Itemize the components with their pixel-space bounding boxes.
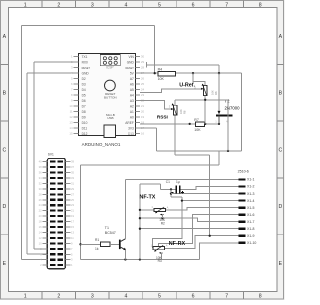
pin TX1 stub left (pin 1) (74, 56, 79, 58)
svg-text:X1-8: X1-8 (247, 227, 254, 231)
wire RX0 left vertical (33, 62, 35, 249)
svg-text:23: 23 (71, 203, 74, 207)
node X1-4 tap on drop (181, 199, 183, 201)
pin A2 stub right (pin 21) (135, 105, 140, 107)
SV1 stub right pin 23 (65, 204, 70, 206)
frame column tick bottom 4 (142, 292, 144, 299)
svg-text:12: 12 (39, 236, 42, 240)
SV1 stub left pin 12 (42, 237, 47, 239)
svg-text:10: 10 (69, 104, 73, 108)
wire X1-3 (171, 193, 238, 195)
wire R2 wiper line to X1-7 (140, 218, 239, 221)
svg-text:D13: D13 (128, 132, 134, 136)
node R2 left bus tap (139, 209, 141, 211)
pin RESET stub left (pin 3) (74, 67, 79, 69)
wire RSSI route horizontal (175, 154, 210, 156)
svg-text:D5: D5 (82, 93, 86, 97)
transistor T2 drain lead (227, 115, 229, 150)
wire X1-4 line (182, 200, 239, 202)
svg-text:NF-TX: NF-TX (140, 195, 156, 201)
pin GND stub left (pin 4) (74, 72, 79, 74)
SV1 pad left row 18 (pin 6) (50, 253, 55, 255)
svg-text:6: 6 (192, 294, 195, 300)
svg-text:R8: R8 (183, 110, 187, 114)
wire RESET net drop to gate node (218, 65, 220, 73)
SV1 stub left pin 2 (42, 264, 47, 266)
connector X1 pad 7 (238, 221, 245, 223)
svg-text:ICSP: ICSP (106, 66, 114, 70)
svg-text:10: 10 (39, 241, 42, 245)
pin A0 stub right (pin 19) (135, 116, 140, 118)
svg-text:R3: R3 (158, 259, 162, 263)
pin A5 stub right (pin 24) (135, 89, 140, 91)
svg-text:5: 5 (158, 294, 161, 300)
pin D10 stub left (pin 13) (74, 122, 79, 124)
svg-text:C1: C1 (166, 180, 170, 184)
SV1 pad left row 2 (pin 38) (50, 166, 55, 168)
SV1 stub right pin 27 (65, 193, 70, 195)
SV1 stub left pin 24 (42, 204, 47, 206)
svg-text:22: 22 (39, 209, 42, 213)
SV1 stub right pin 33 (65, 177, 70, 179)
svg-text:NF-RX: NF-RX (169, 241, 186, 247)
wire RSSI top / U-Ref bottom / T2 drain net (175, 99, 228, 101)
svg-text:X1-4: X1-4 (247, 199, 254, 203)
node R2 bus tap wiper (139, 217, 141, 219)
frame column tick bottom 5 (175, 292, 177, 299)
svg-text:R1: R1 (95, 238, 99, 242)
wire RSSI trimmer top riser (174, 100, 176, 105)
svg-text:39: 39 (71, 160, 74, 164)
svg-text:2: 2 (57, 294, 60, 300)
svg-text:2N7000: 2N7000 (225, 106, 241, 111)
svg-text:4: 4 (124, 294, 127, 300)
pin RX0 stub left (pin 2) (74, 61, 79, 63)
transistor T2 channel bar (216, 114, 233, 116)
SV1 pad left row 15 (pin 12) (50, 237, 55, 239)
wire X1-6 elbow down to NF-RX top (159, 215, 239, 247)
svg-text:D11: D11 (82, 126, 88, 130)
wire R7 to T2 source (205, 123, 219, 125)
pin D13 stub right (pin 16) (135, 133, 140, 135)
SV1 pad right row 10 (pin 21) (58, 210, 63, 212)
arduino reset button circle (105, 80, 116, 91)
pin D3 stub left (pin 6) (74, 83, 79, 85)
SV1 stub right pin 11 (65, 237, 70, 239)
connector X1 pad 6 (238, 214, 245, 216)
SV1 stub left pin 36 (42, 172, 47, 174)
wire big loop riser (218, 151, 220, 165)
node R7 left junction (189, 123, 191, 125)
svg-text:A: A (166, 244, 168, 248)
svg-text:17: 17 (141, 126, 145, 130)
transistor T1 emitter diagonal (121, 247, 126, 250)
svg-text:31: 31 (71, 181, 74, 185)
SV1 stub left pin 26 (42, 199, 47, 201)
SV1 pad left row 8 (pin 26) (50, 199, 55, 201)
wire 5V pin to R4 (140, 72, 158, 74)
SV1 pad left row 14 (pin 14) (50, 231, 55, 233)
wire C1 right plate to X1-2 (180, 187, 238, 190)
svg-text:7: 7 (225, 2, 228, 8)
svg-text:11: 11 (70, 110, 73, 114)
svg-text:23: 23 (141, 93, 145, 97)
trimmer R3 adjust arrow (156, 245, 164, 250)
trimmer U-Ref body (204, 86, 207, 96)
svg-text:BUTTON: BUTTON (104, 95, 117, 99)
node R1 tap on big loop (79, 243, 81, 245)
node 5V/R4 junction (154, 72, 156, 74)
wire big loop horizontal (81, 164, 220, 166)
svg-text:15: 15 (69, 132, 73, 136)
resistor R1 body (101, 242, 111, 246)
wire X1-8 bus branch (140, 228, 239, 230)
svg-text:BC547: BC547 (105, 231, 116, 235)
node center bus on bottom run (139, 258, 141, 260)
ICSP pad 3 (114, 57, 117, 60)
SV1 pad left row 11 (pin 20) (50, 215, 55, 217)
wire C1 feed jog vertical (160, 184, 162, 190)
node X1-3 tap (170, 192, 172, 194)
frame row tick right 4 (277, 234, 284, 236)
SV1 stub left pin 40 (42, 161, 47, 163)
SV1 pad left row 6 (pin 30) (50, 188, 55, 190)
SV1 pad left row 5 (pin 32) (50, 182, 55, 184)
svg-text:A5: A5 (130, 88, 134, 92)
SV1 stub right pin 3 (65, 259, 70, 261)
svg-text:A0: A0 (130, 115, 134, 119)
node C1 branch tap (170, 188, 172, 190)
wire bottom run to X1-10 (200, 243, 239, 260)
frame column tick top 2 (75, 1, 77, 8)
wire bottom ground run (81, 259, 200, 261)
svg-text:C: C (3, 147, 7, 153)
wire R2 left stub from bus (140, 209, 154, 211)
svg-text:X1-1: X1-1 (247, 178, 254, 182)
svg-text:33: 33 (71, 176, 74, 180)
SV1 stub left pin 10 (42, 242, 47, 244)
wire to C1 left plate (161, 188, 176, 190)
wire NF-RX output riser to X1-9 (164, 236, 238, 249)
svg-text:21: 21 (141, 104, 145, 108)
frame column tick bottom 6 (209, 292, 211, 299)
svg-text:5: 5 (158, 2, 161, 8)
node T2 source junction (218, 123, 220, 125)
wire A5 to U-Ref wiper stepped (140, 89, 201, 93)
SV1 pad right row 2 (pin 37) (58, 166, 63, 168)
svg-text:26: 26 (39, 198, 42, 202)
SV1 stub right pin 39 (65, 161, 70, 163)
pin 5V stub right (pin 27) (135, 72, 140, 74)
svg-text:ARDUINO_NANO1: ARDUINO_NANO1 (82, 142, 121, 147)
SV1 stub left pin 22 (42, 210, 47, 212)
wire T2 drain riser (227, 100, 229, 116)
svg-text:X1-7: X1-7 (247, 220, 254, 224)
svg-text:20: 20 (39, 214, 42, 218)
wire RSSI route vertical upper (174, 115, 176, 155)
wire X1-5 from R2 output (165, 208, 238, 210)
svg-text:T1: T1 (105, 226, 109, 230)
svg-text:25: 25 (141, 82, 145, 86)
transistor T1 collector diagonal (121, 239, 126, 242)
svg-text:D9: D9 (82, 115, 86, 119)
wire GND from nano to left vertical (27, 72, 75, 74)
svg-text:D8: D8 (82, 110, 86, 114)
SV1 stub left pin 18 (42, 221, 47, 223)
SV1 pad right row 17 (pin 7) (58, 248, 63, 250)
arduino nano ARDUINO_NANO1 body (79, 54, 136, 136)
trimmer R2 adjust arrow (157, 207, 165, 212)
frame row tick left 4 (1, 234, 9, 236)
svg-text:17: 17 (71, 220, 74, 224)
wire X1-4 elbow down to NF-RX input (153, 197, 182, 248)
frame column tick top 6 (209, 1, 211, 8)
pin D2 stub left (pin 5) (74, 78, 79, 80)
capacitor C1 minus sign (171, 191, 173, 193)
svg-text:21: 21 (71, 209, 74, 213)
wire T2 loop right vertical (241, 73, 243, 151)
frame row tick left 1 (1, 63, 9, 65)
svg-text:10K: 10K (179, 109, 183, 114)
wire A3 to RSSI wiper stepped (140, 101, 171, 109)
SV1 stub left pin 30 (42, 188, 47, 190)
SV1 stub right pin 17 (65, 221, 70, 223)
connector X1 pad 2 (238, 185, 245, 187)
SV1 stub right pin 7 (65, 248, 70, 250)
trimmer R2 body (154, 208, 165, 211)
node T2 gate branch (218, 72, 220, 74)
wire X1-1 from T1 collector (125, 179, 238, 181)
svg-text:18: 18 (39, 220, 42, 224)
connector X1 pad 9 (238, 235, 245, 237)
SV1 pad left row 20 (pin 2) (50, 264, 55, 266)
svg-text:A6: A6 (130, 82, 134, 86)
svg-text:R7: R7 (194, 118, 199, 122)
svg-text:TX1: TX1 (82, 55, 88, 59)
pin header SV1 body (47, 158, 65, 268)
svg-text:RESET: RESET (82, 67, 91, 70)
SV1 stub left pin 14 (42, 231, 47, 233)
SV1 stub right pin 37 (65, 166, 70, 168)
svg-text:X1-2: X1-2 (247, 185, 254, 189)
svg-text:14: 14 (69, 126, 73, 130)
SV1 stub right pin 25 (65, 199, 70, 201)
svg-text:D12: D12 (82, 132, 88, 136)
svg-text:25: 25 (71, 198, 74, 202)
transistor T2 gate arrow (218, 111, 221, 114)
SV1 pad right row 16 (pin 9) (58, 242, 63, 244)
svg-text:A1: A1 (130, 110, 134, 114)
svg-text:E: E (279, 261, 283, 267)
pin A4 stub right (pin 23) (135, 94, 140, 96)
svg-text:6: 6 (192, 2, 195, 8)
svg-text:D: D (3, 204, 7, 210)
pin A7 stub right (pin 26) (135, 78, 140, 80)
wire C1 branch vertical (170, 189, 172, 197)
wire big loop left vertical (80, 165, 82, 260)
svg-text:24: 24 (141, 88, 145, 92)
svg-text:D10: D10 (82, 121, 88, 125)
node R7 right / U-Ref bottom junction (204, 123, 206, 125)
svg-text:B: B (3, 91, 7, 97)
svg-text:13: 13 (71, 230, 74, 234)
wire GND into SV1 pin row 18 (27, 253, 47, 255)
SV1 pad right row 11 (pin 19) (58, 215, 63, 217)
SV1 stub right pin 35 (65, 172, 70, 174)
svg-text:29: 29 (141, 60, 145, 64)
node U-Ref top branch (192, 72, 194, 74)
wire U-Ref top hook (193, 73, 205, 85)
SV1 stub right pin 5 (65, 253, 70, 255)
SV1 pad left row 16 (pin 10) (50, 242, 55, 244)
svg-text:32: 32 (39, 181, 42, 185)
SV1 pad left row 13 (pin 16) (50, 226, 55, 228)
pin D8 stub left (pin 11) (74, 111, 79, 113)
svg-text:D6: D6 (82, 99, 86, 103)
SV1 pad left row 17 (pin 8) (50, 248, 55, 250)
svg-text:1: 1 (24, 294, 27, 300)
pin D7 stub left (pin 10) (74, 105, 79, 107)
frame column tick bottom 3 (108, 292, 110, 299)
svg-text:12: 12 (69, 115, 73, 119)
SV1 stub right pin 13 (65, 231, 70, 233)
svg-text:30: 30 (39, 187, 42, 191)
SV1 pad left row 9 (pin 24) (50, 204, 55, 206)
SV1 stub right pin 15 (65, 226, 70, 228)
SV1 pad right row 5 (pin 31) (58, 182, 63, 184)
node T1 emitter on bottom run (124, 258, 126, 260)
pin D9 stub left (pin 12) (74, 116, 79, 118)
pin 3V3 stub right (pin 17) (135, 127, 140, 129)
SV1 stub right pin 29 (65, 188, 70, 190)
arduino ICSP header box (100, 55, 120, 66)
SV1 stub left pin 38 (42, 166, 47, 168)
svg-text:37: 37 (71, 165, 74, 169)
SV1 pad right row 6 (pin 29) (58, 188, 63, 190)
frame column tick bottom 1 (41, 292, 43, 299)
svg-text:R6: R6 (214, 91, 218, 95)
frame column tick bottom 2 (75, 292, 77, 299)
svg-text:T2: T2 (225, 99, 231, 104)
SV1 stub right pin 21 (65, 210, 70, 212)
wire NF-RX input stub (152, 247, 155, 249)
SV1 pad right row 12 (pin 17) (58, 221, 63, 223)
transistor T1 emitter arrow (123, 248, 126, 251)
SV1 stub right pin 1 (65, 264, 70, 266)
svg-text:13: 13 (69, 121, 73, 125)
SV1 stub left pin 34 (42, 177, 47, 179)
wire RX0 from nano to left vertical (34, 61, 74, 63)
SV1 stub left pin 8 (42, 248, 47, 250)
trimmer RSSI body (174, 105, 177, 115)
wire T2 gate vertical (218, 73, 220, 111)
trimmer R2 wiper arrow (161, 214, 164, 216)
pin GND stub right (pin 29) (135, 61, 140, 63)
SV1 stub left pin 20 (42, 215, 47, 217)
wire 5V top loop horizontal (21, 25, 154, 27)
connector X1 pad 1 (238, 178, 245, 180)
wire AREF to R7 (140, 123, 195, 125)
svg-text:C: C (279, 147, 283, 153)
capacitor C1 left plate (176, 186, 178, 194)
SV1 pad left row 19 (pin 4) (50, 259, 55, 261)
svg-text:40: 40 (39, 160, 42, 164)
node X1-8 bus tap (139, 228, 141, 230)
svg-text:A3: A3 (130, 99, 134, 103)
SV1 stub right pin 9 (65, 242, 70, 244)
svg-text:D: D (279, 204, 283, 210)
SV1 pad left row 4 (pin 34) (50, 177, 55, 179)
svg-text:D2: D2 (82, 77, 86, 81)
SV1 pad right row 3 (pin 35) (58, 171, 63, 173)
pin AREF stub right (pin 18) (135, 122, 140, 124)
wire RSSI route long vertical to X1-9 (209, 155, 211, 236)
svg-text:B: B (279, 91, 283, 97)
wire T2 loop bottom horizontal (157, 150, 242, 152)
trimmer R3 body (153, 247, 164, 250)
SV1 stub left pin 4 (42, 259, 47, 261)
node R2 wiper junction (161, 217, 163, 219)
SV1 stub left pin 28 (42, 193, 47, 195)
ICSP pad 5 (109, 61, 112, 64)
trimmer RSSI adjust arrow (173, 105, 177, 115)
connector X1 pad 4 (238, 199, 245, 201)
svg-text:A: A (279, 34, 283, 40)
SV1 pad left row 1 (pin 40) (50, 161, 55, 163)
SV1 pad right row 9 (pin 23) (58, 204, 63, 206)
svg-text:34: 34 (39, 176, 42, 180)
frame column tick bottom 7 (242, 292, 244, 299)
connector X1 pad 3 (238, 192, 245, 194)
svg-text:10K: 10K (211, 90, 215, 95)
frame row tick right 3 (277, 177, 284, 179)
wire GND-RESET jog (146, 62, 148, 68)
node U-Ref bottom junction (204, 99, 206, 101)
svg-text:4: 4 (124, 2, 127, 8)
wire big loop to R1 (81, 243, 101, 245)
svg-text:E: E (3, 261, 7, 267)
wire T1 emitter down to ground run (124, 250, 126, 260)
pin A1 stub right (pin 20) (135, 111, 140, 113)
SV1 pad right row 14 (pin 13) (58, 231, 63, 233)
svg-text:19: 19 (141, 115, 145, 119)
transistor T1 base bar (119, 240, 121, 250)
svg-text:14: 14 (39, 230, 42, 234)
frame column tick top 3 (108, 1, 110, 8)
SV1 pad right row 1 (pin 39) (58, 161, 63, 163)
trimmer R2 wiper stub (161, 215, 163, 219)
svg-text:GND: GND (82, 71, 90, 75)
wire RX0 into SV1 pin row 17 (34, 248, 47, 250)
svg-text:SV1: SV1 (48, 153, 54, 157)
wire RESET net horizontal (147, 64, 219, 66)
svg-text:1k: 1k (95, 247, 99, 251)
pin D6 stub left (pin 9) (74, 100, 79, 102)
wire center bus vertical (139, 184, 141, 260)
svg-text:AREF: AREF (125, 121, 134, 125)
SV1 pad right row 7 (pin 27) (58, 193, 63, 195)
svg-text:R2: R2 (161, 221, 165, 225)
frame column tick top 5 (175, 1, 177, 8)
node RSSI route on X1-9 (209, 235, 211, 237)
svg-text:10K: 10K (158, 77, 165, 81)
node T2 drain on loop (227, 150, 229, 152)
ICSP pad 4 (103, 61, 106, 64)
svg-text:16: 16 (141, 132, 145, 136)
svg-text:X1-3: X1-3 (247, 192, 254, 196)
connector X1 pad 10 (238, 242, 245, 244)
frame column tick top 1 (41, 1, 43, 8)
